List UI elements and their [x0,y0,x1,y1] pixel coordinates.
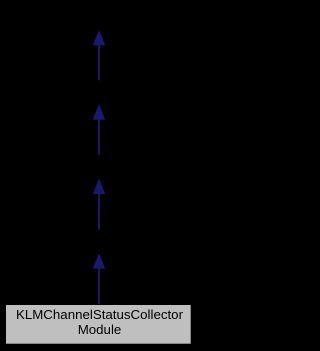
svg-text:Module: Module [78,322,122,337]
svg-text:KLMChannelStatusCollector: KLMChannelStatusCollector [16,307,184,322]
